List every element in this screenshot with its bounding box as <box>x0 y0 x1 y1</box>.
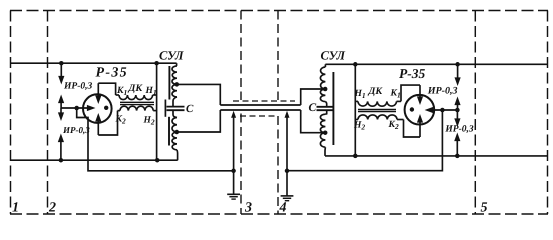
frame right dashed border <box>547 11 549 215</box>
choke DK left winding 1 <box>116 95 157 100</box>
left top rail wire <box>11 62 177 64</box>
choke DK right core <box>358 109 396 111</box>
label SUL left <box>159 49 184 63</box>
transformer SUL left winding s4 <box>172 132 178 160</box>
left IR-0,3 lower down-arrow <box>58 108 64 121</box>
label K1 right <box>390 89 401 100</box>
label N2 left <box>143 116 155 127</box>
node: right meter input / IR column <box>455 108 460 113</box>
frame bottom dashed border <box>10 213 548 215</box>
label SUL right <box>321 49 346 63</box>
svg-text:Н2: Н2 <box>143 116 155 127</box>
right IR-0,3 lower up-arrow <box>454 133 460 156</box>
left IR-0,3 lower label <box>62 125 90 135</box>
transformer SUL right bus wire <box>354 64 356 156</box>
node: right meter input junction <box>440 108 445 113</box>
wire: right tap1 to line <box>301 89 325 105</box>
wire: left ground drop <box>233 114 235 194</box>
svg-text:СУЛ: СУЛ <box>159 49 184 63</box>
left bottom rail wire <box>11 159 178 161</box>
label DK right <box>368 86 384 97</box>
svg-text:К1: К1 <box>390 89 401 100</box>
label P-35 left <box>96 66 128 81</box>
svg-text:ИР-0,3: ИР-0,3 <box>62 125 90 135</box>
right IR-0,3 upper down-arrow <box>455 64 461 86</box>
section label 1 <box>12 201 19 216</box>
label N1 left <box>145 86 157 97</box>
choke DK left winding 2 <box>118 106 157 110</box>
cable section dashed outline top <box>233 100 295 102</box>
left IR-0,3 upper up-arrow <box>58 95 64 109</box>
ground symbol right <box>281 196 294 201</box>
svg-text:ИР-0,3: ИР-0,3 <box>427 86 458 97</box>
transformer SUL right core <box>332 72 334 145</box>
section divider 1-2 <box>47 11 49 215</box>
section divider 2-3 (upper) <box>240 11 242 101</box>
transformer SUL right winding s4 <box>320 133 325 156</box>
capacitor C right <box>317 107 334 110</box>
node: right rail / transformer bus <box>353 62 358 67</box>
node: left bottom rail / transformer bus <box>155 158 160 163</box>
right bottom rail wire <box>325 155 548 157</box>
node: right bottom rail / IR column <box>455 154 460 159</box>
meter P-35 left top arrow (from K1 loop) <box>95 83 101 104</box>
node: right rail / IR column top <box>455 62 460 67</box>
choke DK right winding 2 <box>355 115 403 120</box>
line lower conductor <box>220 109 300 111</box>
transformer SUL right winding s1 <box>320 64 325 89</box>
wire: left meter return <box>77 108 234 171</box>
transformer SUL left bus wire <box>156 63 158 160</box>
line upper conductor <box>220 104 300 106</box>
node: left winding tap 1 <box>175 82 180 87</box>
node: left bottom rail / IR column <box>59 158 64 163</box>
ground symbol left <box>227 194 240 199</box>
svg-text:К2: К2 <box>388 120 399 131</box>
transformer SUL left winding s2 <box>172 84 177 106</box>
svg-text:ДК: ДК <box>368 86 384 97</box>
node: left ground / meter return <box>231 169 236 174</box>
meter P-35 right bottom arrow <box>417 114 423 137</box>
right IR-0,3 upper label <box>427 86 458 97</box>
arrow at line point 3 <box>231 111 236 118</box>
svg-text:ИР-0,3: ИР-0,3 <box>444 125 473 135</box>
node: left rail / IR column top <box>59 61 64 65</box>
choke DK right winding 1 <box>355 101 401 106</box>
section label 5 <box>481 201 488 216</box>
svg-text:ИР-0,3: ИР-0,3 <box>63 82 92 92</box>
section divider 3-4 (upper) <box>277 11 279 101</box>
label P-35 right <box>399 66 425 81</box>
svg-text:3: 3 <box>244 201 252 216</box>
transformer SUL right winding s2 <box>320 89 326 107</box>
choke DK left core <box>120 102 154 104</box>
svg-text:С: С <box>186 103 194 115</box>
transformer SUL left core <box>165 66 169 146</box>
section divider 4-5 <box>474 11 476 215</box>
wire: right ground drop <box>286 114 288 196</box>
section label 3 <box>244 201 252 216</box>
capacitor C left <box>167 107 185 111</box>
section label 4 <box>279 201 287 216</box>
wire: right K1 top loop <box>401 85 420 101</box>
transformer SUL left winding s1 <box>172 63 177 84</box>
svg-text:Н2: Н2 <box>353 121 365 132</box>
label DK left <box>128 83 144 94</box>
node: left rail / transformer bus <box>154 61 159 65</box>
right IR-0,3 lower label <box>444 125 473 135</box>
svg-text:5: 5 <box>481 201 488 216</box>
svg-text:СУЛ: СУЛ <box>321 49 346 63</box>
frame top dashed border <box>10 10 548 12</box>
section divider 2-3 (lower) <box>240 114 242 215</box>
svg-text:4: 4 <box>279 201 287 216</box>
wire: left tap1 to line <box>177 84 221 105</box>
svg-text:Р-35: Р-35 <box>399 66 425 81</box>
wire: left K1 top loop <box>98 83 115 95</box>
label K2 left <box>115 115 126 126</box>
wire: right meter return <box>287 110 442 171</box>
wire: right K2 bottom loop <box>404 120 421 138</box>
label C right <box>309 102 317 114</box>
svg-text:ДК: ДК <box>128 83 144 94</box>
cable section dashed outline bottom <box>240 115 278 117</box>
meter P-35 right top arrow <box>417 85 423 105</box>
right IR-0,3 upper up-arrow <box>454 97 460 111</box>
meter P-35 left bottom arrow (from K2 loop) <box>95 113 101 135</box>
frame left dashed border <box>10 11 12 215</box>
label N1 right <box>354 89 366 100</box>
label K2 right <box>388 120 399 131</box>
label N2 right <box>353 121 365 132</box>
transformer SUL right winding s3 <box>320 110 326 133</box>
right top rail wire <box>325 63 548 65</box>
left IR-0,3 lower up-arrow <box>58 134 64 161</box>
wire: right meter input <box>425 107 458 113</box>
meter P-35 right pivot dot <box>410 107 414 111</box>
meter P-35 right circle <box>405 95 435 125</box>
node: right winding tap 1 <box>323 87 328 92</box>
section divider 3-4 (lower) <box>277 116 279 214</box>
svg-text:С: С <box>309 102 317 114</box>
node: left winding tap 2 <box>175 130 180 135</box>
left IR-0,3 upper down-arrow <box>58 63 64 84</box>
svg-text:2: 2 <box>48 201 56 216</box>
wire: left meter input <box>61 105 96 111</box>
wire: right tap2 to line <box>301 110 325 133</box>
arrow at line point 4 <box>285 111 290 118</box>
svg-text:К2: К2 <box>115 115 126 126</box>
left IR-0,3 upper label <box>63 82 92 92</box>
right IR-0,3 lower down-arrow <box>454 110 460 127</box>
node: left meter input junction <box>74 106 79 111</box>
label K1 left <box>116 86 127 97</box>
transformer SUL left winding s3 <box>172 110 177 132</box>
label C left <box>186 103 194 115</box>
svg-text:Р-35: Р-35 <box>96 66 128 81</box>
node: right winding tap 2 <box>323 130 328 135</box>
node: right ground / meter return <box>285 169 290 174</box>
wire: left K2 bottom loop <box>98 111 117 135</box>
svg-text:1: 1 <box>12 201 19 216</box>
wire: left tap2 to line <box>177 110 221 132</box>
meter P-35 left pivot dot <box>104 106 108 110</box>
node: right bottom rail / transformer bus <box>353 154 358 159</box>
meter P-35 left circle <box>83 94 112 123</box>
section label 2 <box>48 201 56 216</box>
svg-text:Н1: Н1 <box>354 89 366 100</box>
